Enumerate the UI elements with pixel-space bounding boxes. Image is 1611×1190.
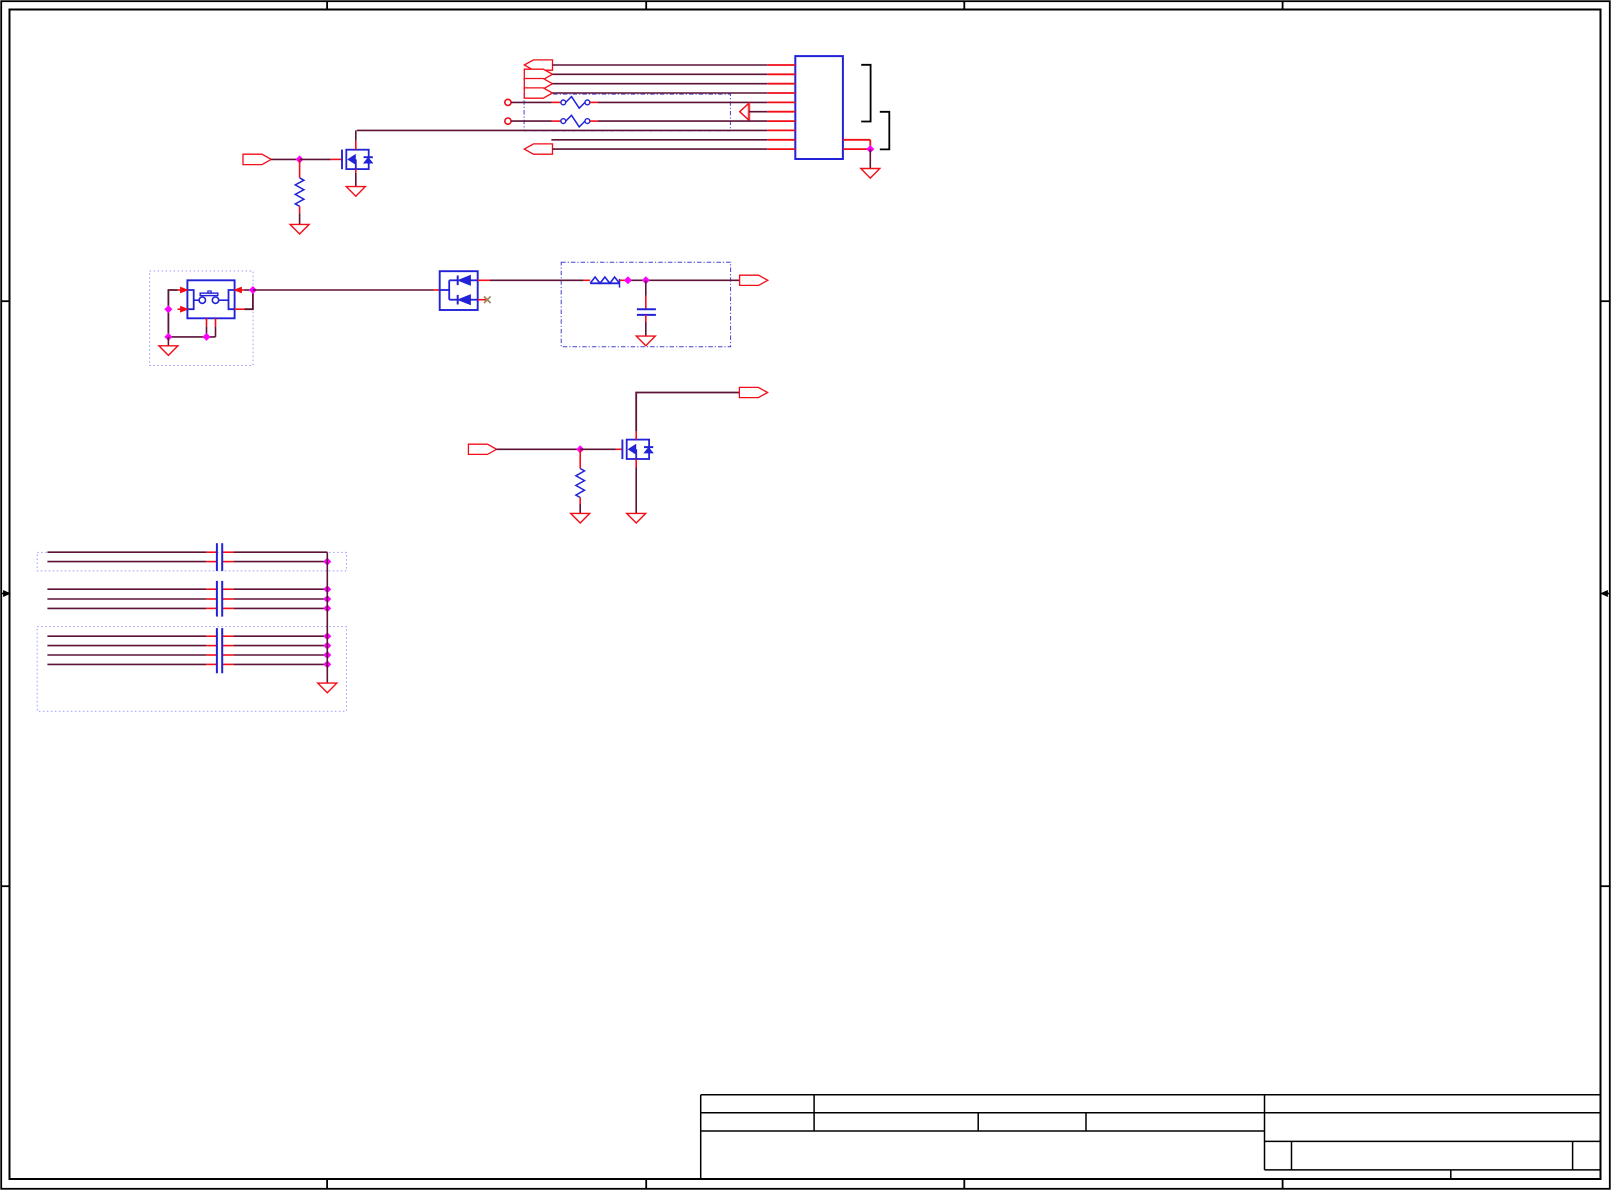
junction cap bank xyxy=(324,605,331,612)
wire row2 xyxy=(553,73,768,75)
selection box (dotted) cap group 3 xyxy=(37,627,346,712)
junction cap bank xyxy=(324,661,331,668)
wire J1 right pins join xyxy=(869,140,871,149)
diode D1 (dual) xyxy=(440,271,478,310)
wire port to junction (Q2) xyxy=(497,448,581,450)
wire Q1 drain up xyxy=(355,130,357,140)
wire Q2 drain to port xyxy=(636,393,739,432)
wire R2 to ground xyxy=(579,504,581,513)
wire row9 xyxy=(551,139,767,141)
junction SW1 left pin2 xyxy=(165,306,172,313)
pin stub Q1 source xyxy=(355,169,357,173)
wire SW1 to ground xyxy=(167,337,169,346)
ground (cap bank) xyxy=(318,683,337,693)
junction filter a xyxy=(625,277,632,284)
wire Q2 source to ground xyxy=(635,468,637,514)
pin stub cap right xyxy=(222,607,233,609)
port row4 (right-pointing) xyxy=(524,88,552,98)
pin stub D1 bottom out xyxy=(478,299,487,301)
junction J1 right xyxy=(867,146,874,153)
bracket pins 1-7 xyxy=(861,65,870,122)
capacitor bank group1 plates xyxy=(217,543,222,571)
port Q2 drain output (right-pointing) xyxy=(739,387,767,397)
terminal circle row7 xyxy=(505,118,511,124)
pin arrow SW1 pin2 xyxy=(181,307,188,312)
wire row3 xyxy=(553,83,768,85)
wire cap row left xyxy=(47,635,206,637)
ground (Q2 source) xyxy=(627,513,646,523)
port Q1 gate input xyxy=(243,154,271,164)
wire cap row right xyxy=(234,551,328,553)
port row10 (left-pointing) xyxy=(524,144,552,154)
pin stub cap right xyxy=(222,561,233,563)
pin arrow SW1 pin1 xyxy=(181,287,188,292)
wire cap row left xyxy=(47,551,206,553)
pin stub Q1 gate xyxy=(331,158,342,160)
wire cap row right xyxy=(234,607,328,609)
pin stub cap right xyxy=(222,588,233,590)
pin stub cap left xyxy=(206,607,217,609)
pin stub row7 left xyxy=(552,120,561,122)
wire row10 xyxy=(553,148,768,150)
pin stub L1 right xyxy=(620,279,626,281)
ground (J1) xyxy=(861,169,880,179)
wire cap row right xyxy=(234,654,328,656)
junction cap bank xyxy=(324,586,331,593)
wire cap row left xyxy=(47,598,206,600)
pin stub L1 left xyxy=(584,279,591,281)
wire cap row right xyxy=(234,561,328,563)
pin stub Q2 source xyxy=(635,459,637,468)
pin stub SW1 pin4 xyxy=(235,308,245,310)
pin stub D1 common xyxy=(434,289,440,291)
pin stub cap left xyxy=(206,551,217,553)
jumper resistor row7 xyxy=(561,119,566,124)
pin stub cap right xyxy=(222,645,233,647)
pin stub cap left xyxy=(206,645,217,647)
ground (R2) xyxy=(571,513,590,523)
wire D1 to L1 xyxy=(490,279,584,281)
wire SW1 pin3 to junction xyxy=(245,289,253,291)
wire row5 left xyxy=(511,101,552,103)
pin stub R2 top xyxy=(579,449,581,468)
bus entry arrow row6 xyxy=(740,103,749,120)
wire junction to gate stub (Q1) xyxy=(300,158,331,160)
junction filter b xyxy=(643,277,650,284)
junction cap bank xyxy=(324,596,331,603)
ground (C1) xyxy=(636,336,655,346)
wire cap row left xyxy=(47,607,206,609)
title block xyxy=(701,1095,1601,1179)
pin stub cap left xyxy=(206,588,217,590)
junction SW1 bottom mid xyxy=(203,334,210,341)
wire cap row right xyxy=(234,588,328,590)
wire R1 to ground xyxy=(299,213,301,224)
wire cap row left xyxy=(47,645,206,647)
pin stub SW1 pin5 xyxy=(206,318,208,326)
junction cap bank xyxy=(324,652,331,659)
bracket pins 6-10 xyxy=(880,112,890,150)
wire row8 (from Q1 drain) xyxy=(357,129,768,131)
wire row6 xyxy=(749,111,767,113)
pin stub Q1 drain xyxy=(355,141,357,150)
junction cap bank xyxy=(324,633,331,640)
transistor Q2 xyxy=(622,440,653,460)
port row3 (right-pointing) xyxy=(524,79,552,89)
pin stub cap left xyxy=(206,663,217,665)
capacitor C1 xyxy=(637,309,656,315)
port filter output (right-pointing) xyxy=(740,275,768,285)
wire SW1 pin5 down xyxy=(206,327,208,337)
pin stub cap right xyxy=(222,635,233,637)
port row1 (left-pointing) xyxy=(524,60,552,70)
ground (R1) xyxy=(290,224,309,234)
connector J1 xyxy=(767,56,870,159)
pin stub row5 right xyxy=(590,101,598,103)
pin stub cap right xyxy=(222,654,233,656)
pin stub row7 right xyxy=(590,120,598,122)
port row2 (right-pointing) xyxy=(524,69,552,79)
no-connect X (D1 pin) xyxy=(484,296,491,303)
pin stub Q2 gate xyxy=(616,448,623,450)
junction Q2 gate xyxy=(577,446,584,453)
pin stub SW1 pin3 xyxy=(235,289,245,291)
capacitor bank group2 plates xyxy=(217,581,222,617)
pin stub R1 bottom xyxy=(299,206,301,213)
wire row1 xyxy=(553,64,768,66)
wire SW1 bottom bus xyxy=(168,336,215,338)
wire cap row right xyxy=(234,598,328,600)
wire cap bank vertical bus xyxy=(326,552,328,683)
wire to ground (J1) xyxy=(869,149,871,168)
wire cap row left xyxy=(47,561,206,563)
pin stub row5 left xyxy=(552,101,561,103)
ground (SW1) xyxy=(159,346,178,356)
junction SW1 bottom left xyxy=(165,334,172,341)
pin stub cap left xyxy=(206,561,217,563)
wire Q1 source to ground xyxy=(355,173,357,187)
wire row7 left xyxy=(511,120,552,122)
wire cap row left xyxy=(47,663,206,665)
pin arrow SW1 pin3 xyxy=(235,287,242,292)
wire cap row left xyxy=(47,654,206,656)
port Q2 gate input xyxy=(468,444,496,454)
pin stub Q2 drain xyxy=(635,431,637,439)
wire row5 right xyxy=(598,101,767,103)
switch SW1 xyxy=(187,280,234,318)
selection box (dotted) cap group 1 xyxy=(37,552,346,571)
inductor L1 (ferrite bead) xyxy=(590,277,619,288)
selection box (dash-dot) around filter xyxy=(561,262,730,346)
wire C1 to ground xyxy=(645,322,647,336)
selection box (dotted) around SW1 xyxy=(150,271,253,366)
pin stub cap right xyxy=(222,598,233,600)
wire SW1 pin6 down xyxy=(215,327,217,337)
pin stub cap left xyxy=(206,635,217,637)
pin stub C1 top xyxy=(645,296,647,309)
pin stub SW1 pin6 xyxy=(215,318,217,326)
pin stub SW1 pin2 xyxy=(178,308,188,310)
wire SW1 left pins xyxy=(168,290,177,337)
pin stub cap left xyxy=(206,654,217,656)
wire SW1 to D1 xyxy=(253,289,434,291)
pin stub SW1 pin1 xyxy=(178,289,188,291)
resistor R2 (gate pulldown) xyxy=(576,469,585,498)
wire junction to gate stub (Q2) xyxy=(580,448,616,450)
wire cap row left xyxy=(47,588,206,590)
pin stub cap left xyxy=(206,598,217,600)
wire cap row right xyxy=(234,645,328,647)
pin stub cap right xyxy=(222,551,233,553)
junction Q1 gate xyxy=(296,156,303,163)
wire cap row right xyxy=(234,635,328,637)
pin stub R2 bottom xyxy=(579,498,581,505)
pin stub D1 top out xyxy=(478,279,490,281)
terminal circle row5 xyxy=(505,99,511,105)
selection box (dash-dot) around jumpers xyxy=(524,94,730,131)
resistor R1 (gate pulldown) xyxy=(295,178,304,207)
wire row7 right xyxy=(598,120,767,122)
wire row4 xyxy=(553,92,768,94)
junction SW1 output xyxy=(250,287,257,294)
pin stub C1 bottom xyxy=(645,315,647,322)
wire L1 to port xyxy=(625,279,739,281)
wire port to junction (Q1) xyxy=(271,158,299,160)
pin stub R1 top xyxy=(299,159,301,177)
wire junction to C1 xyxy=(645,280,647,296)
junction cap bank xyxy=(324,558,331,565)
ground (Q1 source) xyxy=(346,187,365,197)
capacitor bank group3 plates xyxy=(217,628,222,673)
wire cap row right xyxy=(234,663,328,665)
pin stub cap right xyxy=(222,663,233,665)
jumper resistor row5 xyxy=(561,100,566,105)
transistor Q1 xyxy=(342,150,373,170)
junction cap bank xyxy=(324,642,331,649)
wire SW1 pin4 up to pin3 xyxy=(245,290,253,309)
